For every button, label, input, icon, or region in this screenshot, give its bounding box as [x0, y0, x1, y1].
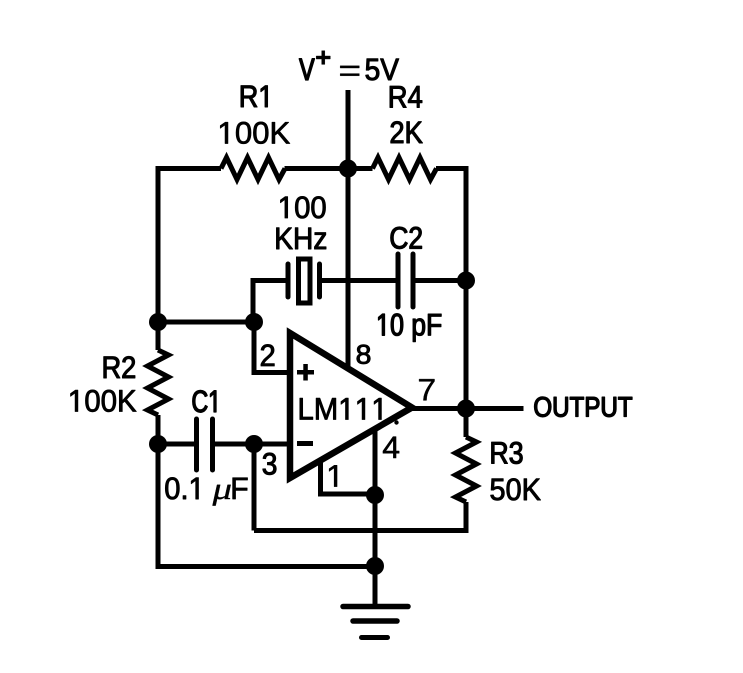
wire left rail upper segment	[156, 166, 161, 350]
label C1 value mu	[213, 485, 231, 506]
node junction pin1/pin4	[366, 486, 384, 504]
label = of V+=5V	[340, 66, 359, 76]
C1 left plate	[194, 419, 199, 470]
resistor R2	[148, 350, 169, 415]
label crystal KHz	[277, 228, 327, 249]
label 5V of V+=5V	[366, 59, 399, 81]
label R4 value 2K	[391, 121, 423, 143]
crystal left plate	[286, 264, 291, 297]
wire top right segment	[436, 166, 466, 171]
pin number 8	[357, 345, 370, 364]
wire right rail lower segment	[464, 502, 469, 531]
ground	[343, 607, 408, 638]
label C2 value pF	[413, 314, 441, 342]
ground bar 3	[362, 635, 388, 640]
wire pin 4 lead	[373, 428, 378, 494]
op-amp minus input marker	[297, 441, 313, 446]
pin number 7	[419, 379, 434, 400]
label C2	[391, 227, 422, 249]
label R2	[104, 356, 135, 378]
wire pin3 down vertical	[252, 444, 257, 531]
node junction V+/R1/R4	[339, 160, 357, 178]
node junction left rail C1	[149, 435, 167, 453]
crystal right plate	[317, 264, 322, 297]
label OUTPUT	[535, 397, 633, 417]
resistor R4	[373, 158, 437, 180]
pin number 1	[329, 465, 337, 486]
label C1	[193, 390, 216, 412]
wire pin 1 lead	[321, 459, 376, 494]
label V of V+=5V	[299, 59, 314, 80]
label R2 value 100K	[71, 390, 137, 412]
wire top left segment	[158, 166, 221, 171]
scan artifact dot near pin 4	[394, 420, 398, 424]
label R1	[241, 86, 268, 107]
wire mid vertical to ground	[373, 494, 378, 606]
node junction left rail row	[149, 313, 167, 331]
node junction output	[457, 400, 475, 418]
wire node row y=322	[158, 320, 254, 325]
label LM111	[300, 398, 381, 419]
wire pin 2 lead	[254, 322, 290, 373]
label R3	[492, 442, 523, 464]
label C2 value 10	[379, 314, 403, 336]
ground bar 2	[353, 618, 397, 624]
capacitor C2	[398, 254, 413, 307]
label R4	[390, 86, 422, 107]
label R3 value 50K	[491, 478, 541, 500]
wire output lead	[412, 406, 524, 411]
op-amp U1 LM111	[290, 333, 412, 478]
wire crystal right lead to C2	[322, 278, 396, 283]
capacitor C1	[197, 419, 213, 470]
ground bar 1	[343, 604, 408, 610]
label crystal 100	[281, 196, 326, 218]
wire bottom left horizontal	[156, 564, 376, 569]
node junction crystal/pin2	[245, 313, 263, 331]
wire C1 left lead	[158, 442, 194, 447]
resistor R1	[221, 158, 285, 180]
node junction bottom wire	[366, 557, 384, 575]
node junction C2/right rail	[457, 272, 475, 290]
wire top middle segment	[285, 166, 373, 171]
crystal body rectangle	[299, 259, 311, 303]
label C1 value 0.1	[165, 477, 198, 499]
wire C2 right lead	[416, 278, 467, 283]
wire C1 right lead / pin 3 lead	[215, 442, 290, 447]
crystal Y1 100KHz	[288, 259, 320, 303]
C2 right plate	[411, 254, 416, 307]
wire right rail upper segment	[464, 166, 469, 437]
label + superscript of V+	[316, 51, 330, 65]
pin number 4	[383, 437, 399, 458]
wire top rail with R1 and R4	[158, 158, 466, 180]
op-amp plus input marker	[297, 364, 314, 381]
wire crystal left lead and corner	[253, 281, 286, 323]
node junction C1/pin3	[245, 435, 263, 453]
label C1 value F	[233, 478, 248, 499]
wire V+ vertical / pin 8 lead	[346, 90, 351, 369]
C2 left plate	[396, 254, 401, 307]
pin number 2	[261, 344, 274, 366]
wire bottom middle horizontal	[254, 528, 469, 533]
resistor R3	[456, 437, 477, 502]
label R1 value 100K	[220, 122, 290, 144]
wire left rail with R2	[148, 166, 169, 567]
wire right rail with R3	[456, 166, 477, 531]
pin number 3	[263, 453, 276, 475]
C1 right plate	[210, 419, 215, 470]
wire left rail lower segment	[156, 415, 161, 567]
